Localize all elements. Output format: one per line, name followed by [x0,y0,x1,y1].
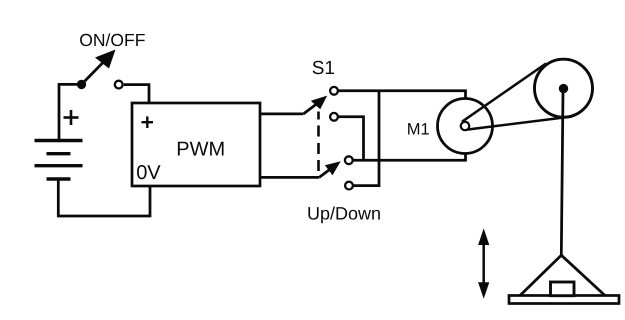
wire switch contact to PWM + input [124,85,149,104]
belt upper run [462,64,546,122]
switch S1 lower lever arrowhead [325,161,341,175]
switch ON/OFF lever arrowhead [95,50,116,69]
load small box [551,282,575,296]
wire S1 contact C4 cross-link up to motor top [349,91,379,186]
switch ON/OFF pole dot [77,80,86,89]
up/down motion arrow [478,228,489,298]
load platform bar [509,296,619,304]
switch S1 mechanical link (dashed) [317,112,320,172]
svg-text:S1: S1 [312,58,335,79]
switch S1 lower lever [319,169,331,178]
battery B1 [35,84,83,179]
pulley wheel [535,59,593,117]
wire battery positive lead [58,84,61,139]
motor M1 pulley circle [438,99,493,154]
wire S1 contact C1 to motor top [334,91,466,126]
wire PWM lower output [260,176,319,179]
battery plate long top [35,139,83,142]
switch ON/OFF throw contact [115,81,123,89]
svg-text:ON/OFF: ON/OFF [79,30,145,50]
switch S1 contact C4 [345,182,353,190]
switch ON/OFF lever [82,62,105,85]
cord from pulley to load [561,92,563,255]
switch S1 upper lever arrowhead [311,96,327,110]
switch S1 upper lever [304,103,319,114]
pulley axle dot [559,84,568,93]
wire PWM upper output [260,113,304,116]
switch S1 contact C1 [330,87,338,95]
motor M1 shaft [461,122,469,130]
switch S1 contact C3 [345,156,353,164]
battery plate short bottom [47,177,71,180]
wire S1 contact C2 cross-link down [334,117,364,160]
battery plate short [47,152,71,155]
svg-text:0V: 0V [136,162,161,184]
wire S1 contact C3 to motor bottom [349,126,466,160]
battery plate long [35,164,83,167]
battery + label [64,110,79,125]
load cradle left leg [520,255,562,296]
PWM box U1 [132,103,260,186]
switch S1 contact C2 [330,113,338,121]
svg-text:PWM: PWM [176,138,225,160]
load cradle right leg [561,255,605,296]
svg-text:M1: M1 [407,121,430,139]
wire battery top to switch pole [58,83,79,86]
svg-text:Up/Down: Up/Down [307,204,381,224]
belt lower run [467,117,572,130]
PWM + input label [142,116,154,128]
wire PWM 0V to battery negative [58,180,150,216]
